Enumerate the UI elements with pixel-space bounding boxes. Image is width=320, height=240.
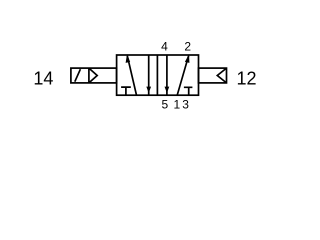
arrowhead up on path 1'-4'	[126, 56, 130, 63]
position divider	[156, 55, 158, 95]
svg-text:3: 3	[182, 97, 189, 111]
svg-text:5: 5	[162, 97, 169, 111]
arrowhead down on path 2'-3'	[147, 87, 151, 92]
left position: flow path 1'-4' (diagonal)	[127, 56, 136, 95]
svg-text:1: 1	[173, 97, 180, 111]
5/2-way pneumatic impulse valve V1	[0, 0, 302, 151]
svg-text:4: 4	[161, 40, 168, 54]
pilot 12 air pilot triangle	[217, 68, 226, 83]
arrowhead up on path 1-2	[186, 56, 190, 63]
pilot 14 manual override slash	[75, 69, 81, 82]
svg-text:12: 12	[237, 68, 257, 88]
right position: flow path 4-5 (vertical)	[166, 55, 168, 95]
svg-text:14: 14	[33, 68, 53, 88]
pilot 14 cell divider	[88, 68, 90, 83]
left position: flow path 2'-3' (vertical)	[148, 55, 150, 95]
left position: blocked port 5' (T symbol)	[121, 87, 131, 95]
pilot box 12 (air pilot)	[199, 68, 227, 83]
svg-text:2: 2	[184, 40, 191, 54]
right position: flow path 1-2 (diagonal)	[177, 56, 188, 95]
pilot box 14 (manual override + air pilot)	[71, 68, 117, 83]
right position: blocked port 3 (T symbol)	[184, 87, 193, 95]
arrowhead down on path 4-5	[165, 87, 169, 92]
valve body outline	[117, 55, 199, 95]
pilot 14 air pilot triangle	[89, 68, 97, 83]
